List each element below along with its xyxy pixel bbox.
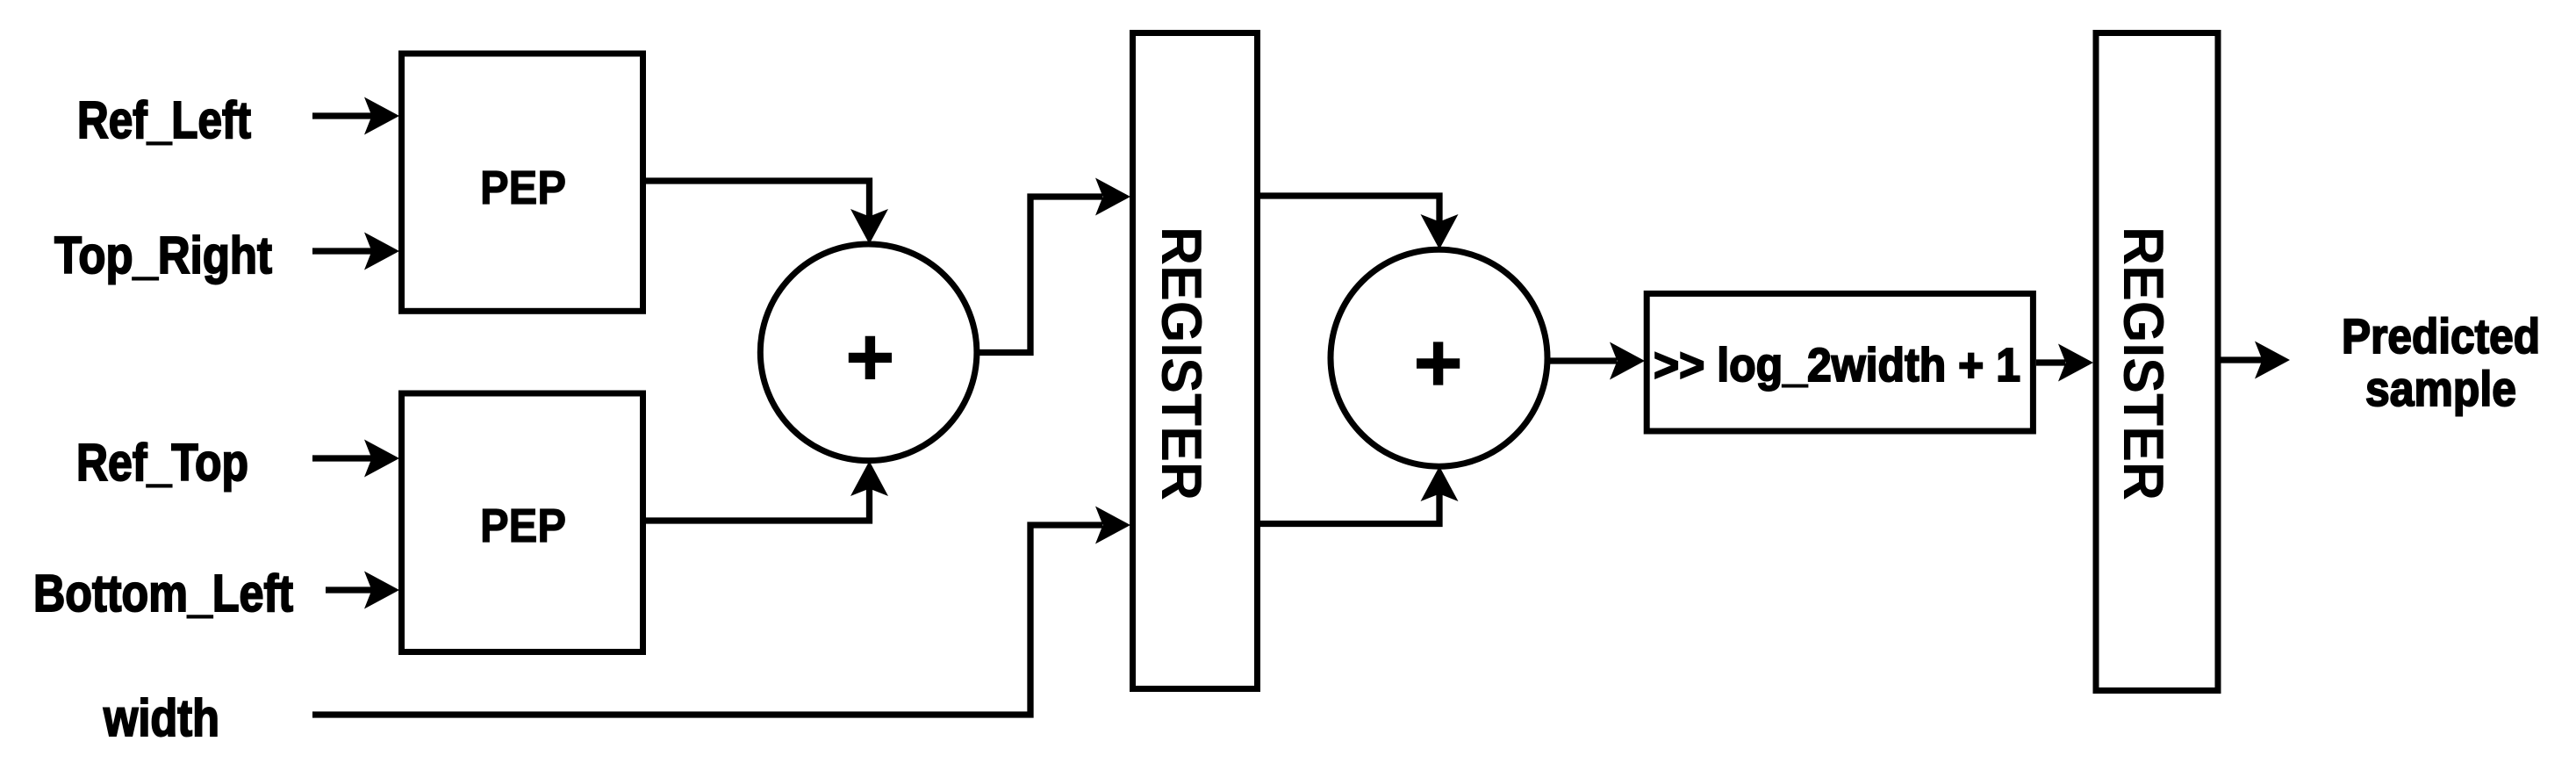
wire arrow Ref_Left into PEP1 [312, 112, 373, 119]
adder2 circle [1331, 249, 1547, 466]
wire PEP2 output to adder1 bottom [642, 488, 870, 521]
wire PEP1 output to adder1 top [642, 181, 870, 217]
adder1 plus [849, 336, 892, 379]
wire width to REGISTER1 bottom input [312, 525, 1102, 715]
adder1 circle [760, 244, 977, 461]
wire adder1 output to REGISTER1 top input [977, 197, 1102, 353]
wire REGISTER1 bottom output to adder2 bottom [1259, 493, 1439, 524]
block shift [1647, 293, 2033, 431]
adder2 plus [1417, 342, 1460, 385]
svg-text:Predicted: Predicted [2342, 308, 2540, 363]
svg-text:REGISTER: REGISTER [1150, 227, 1213, 500]
svg-text:sample: sample [2365, 361, 2516, 416]
svg-text:Ref_Left: Ref_Left [77, 91, 251, 149]
wire arrow Ref_Top into PEP2 [312, 455, 373, 461]
svg-text:REGISTER: REGISTER [2112, 227, 2175, 500]
block REGISTER1 [1133, 33, 1258, 689]
svg-text:Ref_Top: Ref_Top [76, 434, 248, 492]
svg-text:Top_Right: Top_Right [54, 227, 272, 284]
wire arrow Bottom_Left into PEP2 [326, 586, 373, 593]
wire arrow Top_Right into PEP1 [312, 248, 373, 254]
wire REGISTER2 output [2219, 356, 2263, 363]
svg-text:PEP: PEP [480, 500, 566, 552]
svg-text:>> log_2width + 1: >> log_2width + 1 [1654, 339, 2020, 392]
wire shift output to REGISTER2 [2036, 359, 2065, 365]
svg-text:Bottom_Left: Bottom_Left [33, 565, 293, 622]
block PEP1 [402, 54, 643, 311]
wire adder2 output to shift box [1546, 357, 1617, 363]
wire REGISTER1 top output to adder2 top [1259, 196, 1439, 222]
block PEP2 [402, 393, 643, 652]
svg-text:PEP: PEP [480, 162, 566, 214]
block REGISTER2 [2096, 33, 2218, 691]
svg-text:width: width [103, 689, 219, 747]
